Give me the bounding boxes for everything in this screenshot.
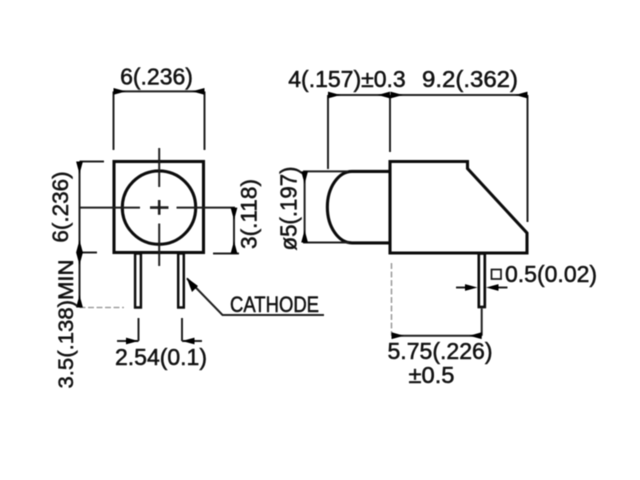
svg-text:3.5(.138)MIN: 3.5(.138)MIN bbox=[54, 260, 78, 389]
svg-text:3(.118): 3(.118) bbox=[237, 179, 262, 249]
svg-text:6(.236): 6(.236) bbox=[120, 64, 193, 90]
svg-text:6(.236): 6(.236) bbox=[48, 171, 73, 242]
svg-text:4(.157)±0.3: 4(.157)±0.3 bbox=[288, 66, 405, 92]
svg-text:9.2(.362): 9.2(.362) bbox=[422, 66, 518, 92]
svg-text:2.54(0.1): 2.54(0.1) bbox=[115, 344, 207, 370]
svg-text:CATHODE: CATHODE bbox=[230, 292, 319, 317]
svg-text:±0.5: ±0.5 bbox=[409, 362, 455, 388]
svg-text:ø5(.197): ø5(.197) bbox=[276, 167, 302, 251]
svg-text:5.75(.226): 5.75(.226) bbox=[388, 338, 493, 364]
svg-text:0.5(0.02): 0.5(0.02) bbox=[505, 261, 597, 287]
